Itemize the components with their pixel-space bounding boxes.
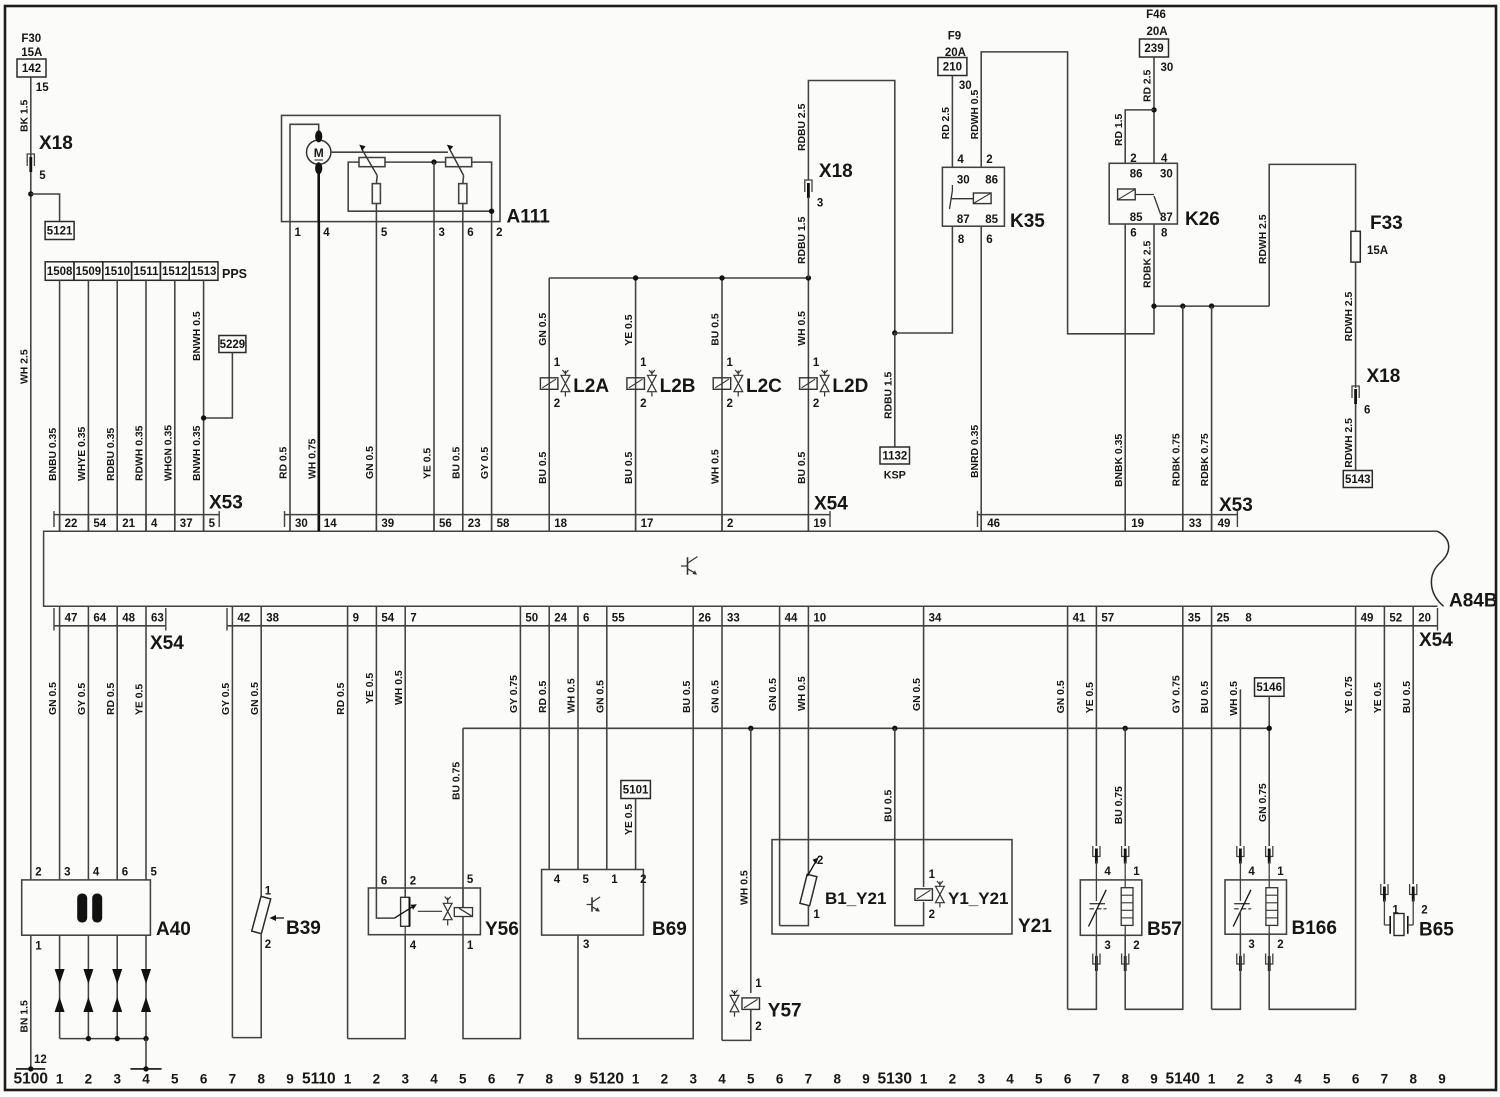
wire RDBK 2.5 K26 pin 8 down — [1153, 224, 1155, 306]
svg-text:41: 41 — [1073, 613, 1086, 625]
svg-text:56: 56 — [439, 518, 452, 530]
svg-text:34: 34 — [929, 613, 942, 625]
ground bar above ruler 4 — [143, 1066, 148, 1071]
component B166 box — [1225, 880, 1287, 934]
injector L2D wire WH 0.5 top / BU 0.5 bottom — [807, 278, 809, 531]
svg-text:GN 0.5: GN 0.5 — [48, 682, 59, 715]
svg-text:7: 7 — [410, 613, 416, 625]
wire B1_Y21 pin 1 U-turn to X54-44 — [780, 905, 809, 926]
svg-text:50: 50 — [525, 613, 538, 625]
wire RDBU 2.5 from junction loop to X18-3 — [808, 81, 894, 334]
wire K35 pin 8 to KSP node — [895, 226, 953, 333]
svg-text:RDWH 0.35: RDWH 0.35 — [135, 425, 146, 481]
svg-text:5120: 5120 — [590, 1071, 624, 1088]
PPS connector boxes 1508-1513 — [45, 262, 74, 281]
svg-text:52: 52 — [1389, 613, 1402, 625]
A111 track connect wire with node to pin 3 — [385, 161, 446, 163]
svg-text:BNWH 0.5: BNWH 0.5 — [192, 311, 203, 361]
svg-text:3: 3 — [113, 1072, 121, 1087]
svg-text:7: 7 — [229, 1072, 237, 1087]
junction on 1513 wire at splice 5229 — [201, 415, 206, 420]
svg-text:X18: X18 — [1367, 366, 1401, 387]
Y56 pin 4 wire to U-turn to X54-9 — [348, 935, 406, 1039]
svg-text:RD 0.5: RD 0.5 — [336, 682, 347, 715]
wire Y57 pin 2 U-turn to X54-33 — [722, 1009, 751, 1040]
svg-text:BU 0.5: BU 0.5 — [682, 680, 693, 713]
wire YE 0.5 splice 5101 to B69 pin 2 — [635, 799, 637, 870]
component A111 box — [282, 115, 501, 221]
fuse F33 symbol — [1351, 231, 1360, 262]
svg-text:5: 5 — [1323, 1072, 1331, 1087]
svg-text:3: 3 — [401, 1072, 409, 1087]
wire RDBK 0.75 to X53-33 — [1182, 306, 1184, 531]
K26 switch contact — [1135, 194, 1154, 196]
injector L2C symbol with pins 1/2 — [713, 378, 731, 390]
svg-text:30: 30 — [1161, 62, 1174, 74]
svg-text:YE 0.5: YE 0.5 — [1085, 682, 1096, 713]
svg-text:B39: B39 — [286, 918, 321, 939]
motor M of A111 — [307, 140, 331, 164]
potentiometer 1 track of A111 — [359, 158, 385, 167]
svg-text:5: 5 — [1035, 1072, 1043, 1087]
svg-text:6: 6 — [1130, 227, 1136, 239]
injector L2C wire BU 0.5 top / WH 0.5 bottom — [721, 278, 723, 531]
svg-text:1: 1 — [1277, 866, 1284, 878]
svg-text:19: 19 — [813, 518, 826, 530]
svg-text:6: 6 — [200, 1072, 208, 1087]
svg-text:BU 0.75: BU 0.75 — [452, 762, 463, 800]
svg-text:WH 0.5: WH 0.5 — [739, 870, 750, 905]
wire GN 0.5 X54-33 down — [721, 626, 723, 1041]
wire RDBK 0.75 to X53-49 — [1211, 306, 1213, 531]
svg-text:BNWH 0.35: BNWH 0.35 — [192, 425, 203, 481]
svg-text:5146: 5146 — [1256, 682, 1282, 694]
svg-text:B1_Y21: B1_Y21 — [825, 889, 886, 908]
svg-text:2: 2 — [640, 874, 646, 886]
svg-text:5100: 5100 — [14, 1071, 48, 1088]
wire GN 0.75 splice 5146 to B166 pin 1 — [1268, 696, 1270, 846]
connector X53 top row line (left group) — [54, 514, 219, 516]
svg-text:GY 0.75: GY 0.75 — [509, 675, 520, 713]
svg-text:6: 6 — [488, 1072, 496, 1087]
svg-text:3: 3 — [689, 1072, 697, 1087]
Y56 pin 1 wire to U-turn to X54-50 — [462, 917, 464, 935]
connector X54 bottom row line (long group) — [227, 625, 1438, 627]
svg-text:30: 30 — [295, 518, 308, 530]
svg-text:F33: F33 — [1370, 213, 1403, 234]
svg-text:39: 39 — [381, 518, 394, 530]
svg-text:1: 1 — [295, 227, 302, 239]
svg-text:F30: F30 — [21, 33, 41, 45]
wire RD 0.5 X54-9 down (return) — [347, 626, 349, 1039]
svg-text:RDWH 2.5: RDWH 2.5 — [1344, 291, 1355, 341]
svg-text:9: 9 — [862, 1072, 870, 1087]
svg-text:Y1_Y21: Y1_Y21 — [948, 889, 1009, 908]
svg-text:3: 3 — [583, 939, 589, 951]
svg-text:WH 0.5: WH 0.5 — [797, 311, 808, 346]
svg-text:X18: X18 — [39, 133, 73, 154]
svg-text:RDBK 0.75: RDBK 0.75 — [1200, 433, 1211, 486]
svg-text:A84B: A84B — [1449, 591, 1498, 612]
svg-text:BN 1.5: BN 1.5 — [19, 1000, 30, 1033]
svg-text:5: 5 — [381, 227, 388, 239]
wire B166 pin 2 U-turn to X54-49 — [1269, 626, 1355, 1010]
svg-text:5229: 5229 — [220, 339, 246, 351]
svg-text:5140: 5140 — [1166, 1071, 1200, 1088]
injector L2B wire YE 0.5 top / BU 0.5 bottom — [635, 278, 637, 531]
solenoid Y1_Y21 symbol pins 1/2 — [915, 889, 933, 901]
svg-text:4: 4 — [1104, 866, 1111, 878]
wire BU 0.75 bus to Y56 pin 5 — [462, 728, 464, 907]
svg-text:26: 26 — [698, 613, 711, 625]
wire GN 0.5 X54-38 to B39 pin 1 — [260, 626, 262, 897]
svg-text:4: 4 — [957, 154, 964, 166]
svg-text:33: 33 — [1189, 518, 1202, 530]
svg-text:GN 0.5: GN 0.5 — [538, 313, 549, 346]
svg-text:57: 57 — [1101, 613, 1114, 625]
svg-text:85: 85 — [1130, 212, 1143, 224]
wire BU 0.75 bus to B57 pin 1 — [1124, 728, 1126, 846]
svg-text:L2C: L2C — [746, 376, 782, 397]
svg-text:10: 10 — [813, 613, 826, 625]
svg-text:X18: X18 — [819, 161, 853, 182]
svg-text:WH 0.5: WH 0.5 — [1229, 681, 1240, 716]
svg-text:9: 9 — [353, 613, 359, 625]
svg-text:5: 5 — [151, 866, 158, 878]
svg-text:BU 0.5: BU 0.5 — [624, 451, 635, 484]
wire BU 0.5 X54-20 to B65 pin 2 — [1412, 626, 1414, 884]
svg-text:WH 2.5: WH 2.5 — [19, 349, 30, 384]
svg-text:YE 0.5: YE 0.5 — [135, 684, 146, 715]
svg-text:BU 0.5: BU 0.5 — [797, 451, 808, 484]
svg-text:63: 63 — [151, 613, 164, 625]
svg-text:6: 6 — [1352, 1072, 1360, 1087]
knock sensor B65 symbol — [1384, 924, 1390, 926]
inline plugs B57 pins 3/2 below — [1093, 954, 1100, 965]
svg-text:3: 3 — [439, 227, 445, 239]
wire RDWH 0.5 K35 pin2 loop over to K26 node — [981, 52, 1154, 334]
svg-text:35: 35 — [1188, 613, 1201, 625]
A111 inner return loop wire — [348, 162, 491, 211]
wire RDWH 2.5 loop up to fuse F33 — [1269, 164, 1355, 306]
svg-text:RDWH 2.5: RDWH 2.5 — [1258, 214, 1269, 264]
svg-text:239: 239 — [1144, 43, 1163, 55]
svg-text:87: 87 — [957, 214, 970, 226]
svg-text:8: 8 — [1121, 1072, 1129, 1087]
connector X18 pin 6 symbol — [1352, 386, 1359, 398]
X53 top pins 46 19 33 49 — [980, 515, 982, 532]
wire WH 0.5 X54-10 to B1_Y21 pin 2 — [807, 626, 809, 875]
svg-text:RD 2.5: RD 2.5 — [1143, 69, 1154, 102]
svg-text:3: 3 — [1248, 939, 1254, 951]
svg-text:12: 12 — [34, 1054, 47, 1066]
svg-text:2: 2 — [1237, 1072, 1245, 1087]
wire RDWH 2.5 fuse F33 to X18-6 — [1355, 262, 1357, 388]
wire K26 pin 6 BNBK 0.35 to X53-19 — [1124, 224, 1126, 531]
svg-text:46: 46 — [987, 518, 1000, 530]
component B69 box — [542, 870, 644, 936]
connector box 239 — [1140, 39, 1169, 57]
svg-text:YE 0.5: YE 0.5 — [365, 673, 376, 704]
svg-text:9: 9 — [574, 1072, 582, 1087]
wire WH 2.5 from X18-5 down to A40 pin 2 — [30, 172, 32, 880]
junction at splice to 5121 — [28, 191, 33, 196]
wire GN 0.5 X54-55 to B69 pin 1 — [606, 626, 608, 870]
svg-text:5143: 5143 — [1345, 474, 1371, 486]
svg-text:47: 47 — [65, 613, 78, 625]
svg-text:8: 8 — [1245, 613, 1252, 625]
X53 top pins 22 54 21 4 37 5 — [59, 515, 61, 532]
wire WH 0.5 bus to Y57 pin 1 — [750, 728, 752, 993]
wire RDWH 2.5 X18-6 to splice 5143 — [1355, 404, 1357, 471]
svg-text:M: M — [314, 146, 324, 160]
svg-text:GY 0.5: GY 0.5 — [77, 683, 88, 715]
svg-text:8: 8 — [545, 1072, 553, 1087]
svg-text:1512: 1512 — [162, 266, 188, 278]
svg-text:1: 1 — [1392, 904, 1399, 916]
B69 internal switch glyph — [591, 897, 593, 911]
svg-text:4: 4 — [93, 866, 100, 878]
svg-text:BNRD 0.35: BNRD 0.35 — [970, 425, 981, 478]
svg-text:GY 0.5: GY 0.5 — [221, 683, 232, 715]
svg-text:5: 5 — [583, 874, 590, 886]
svg-text:1: 1 — [920, 1072, 928, 1087]
svg-text:1: 1 — [35, 941, 42, 953]
A111 internal wire pin1 to motor — [290, 124, 319, 221]
wire RD 1.5 branch to K26 pin 2 — [1125, 110, 1154, 163]
svg-text:GN 0.5: GN 0.5 — [595, 680, 606, 713]
splice box 5146 — [1255, 678, 1285, 697]
svg-text:1: 1 — [1133, 866, 1140, 878]
wire B57 pin 2 U-turn to X54-35 — [1125, 626, 1183, 1010]
svg-text:1: 1 — [265, 885, 272, 897]
svg-text:BU 0.75: BU 0.75 — [1114, 786, 1125, 824]
svg-text:RDBU 1.5: RDBU 1.5 — [797, 216, 808, 264]
solenoid valve Y57 symbol pins 1/2 — [742, 998, 760, 1010]
svg-text:20: 20 — [1418, 613, 1431, 625]
svg-text:14: 14 — [324, 518, 337, 530]
svg-text:RDBU 0.35: RDBU 0.35 — [106, 428, 117, 481]
svg-text:WH 0.5: WH 0.5 — [394, 670, 405, 705]
svg-text:4: 4 — [1248, 866, 1255, 878]
junction bus to B1 supply — [892, 726, 897, 731]
svg-text:2: 2 — [755, 1021, 761, 1033]
X54 bottom pin numbers — [231, 606, 233, 626]
svg-text:2: 2 — [554, 398, 560, 410]
K35 switch contact — [951, 185, 953, 191]
svg-text:2: 2 — [496, 227, 502, 239]
wire BU 0.5 bus into Y21 to Y1_Y21 pin 2 — [895, 728, 924, 925]
svg-text:3: 3 — [817, 198, 823, 210]
svg-text:B166: B166 — [1292, 918, 1337, 939]
svg-text:RDBU 2.5: RDBU 2.5 — [797, 103, 808, 151]
connector X53 top row line (right group) — [978, 514, 1238, 516]
svg-text:Y21: Y21 — [1018, 916, 1052, 937]
svg-text:WH 0.5: WH 0.5 — [797, 676, 808, 711]
svg-text:8: 8 — [958, 234, 965, 246]
svg-text:PPS: PPS — [222, 267, 247, 281]
svg-text:RDBK 0.75: RDBK 0.75 — [1171, 433, 1182, 486]
svg-text:RDWH 2.5: RDWH 2.5 — [1344, 418, 1355, 468]
svg-text:87: 87 — [1160, 212, 1173, 224]
A40 output wires with crash arrows — [59, 935, 61, 1038]
svg-text:30: 30 — [957, 175, 970, 187]
svg-text:A40: A40 — [156, 919, 191, 940]
svg-text:4: 4 — [554, 874, 561, 886]
svg-text:1: 1 — [727, 357, 734, 369]
svg-text:6: 6 — [583, 613, 589, 625]
connector X18 pin 3 symbol (mid) — [805, 180, 812, 192]
svg-text:RD 2.5: RD 2.5 — [941, 107, 952, 140]
svg-text:1: 1 — [755, 978, 762, 990]
svg-text:Y57: Y57 — [768, 1001, 802, 1022]
svg-text:58: 58 — [497, 518, 510, 530]
connector X54 bottom row line (left group) — [54, 625, 166, 627]
wire splice 5229 to 1513 wire — [204, 353, 233, 419]
wire RD 0.5 X54-24 to B69 pin 4 — [548, 626, 550, 870]
svg-text:2: 2 — [265, 939, 271, 951]
wire BU 0.5 X54-25 down (return) — [1211, 626, 1213, 1010]
svg-text:17: 17 — [641, 518, 654, 530]
svg-text:BU 0.5: BU 0.5 — [538, 451, 549, 484]
svg-text:37: 37 — [180, 518, 193, 530]
power rail node wires to X53-33 / X53-49 / F33 — [1154, 305, 1269, 307]
B166 heater resistor symbol — [1266, 888, 1278, 926]
component A40 box — [22, 880, 151, 935]
wire WH 0.5 X54-7 to Y56 pin 2 — [404, 626, 406, 898]
inline plug B166 pin 4 — [1237, 846, 1244, 857]
svg-text:YE 0.5: YE 0.5 — [423, 448, 434, 479]
svg-text:54: 54 — [381, 613, 394, 625]
svg-text:1511: 1511 — [134, 266, 160, 278]
svg-text:2: 2 — [949, 1072, 957, 1087]
svg-text:1: 1 — [554, 357, 561, 369]
wire WH 0.5 X54-6 to B69 pin 5 — [577, 626, 579, 870]
svg-text:5121: 5121 — [47, 226, 73, 238]
svg-text:85: 85 — [985, 214, 998, 226]
svg-text:F9: F9 — [948, 31, 961, 43]
inline plugs B166 pins 3/2 below — [1237, 954, 1244, 965]
svg-text:GN 0.75: GN 0.75 — [1258, 783, 1269, 822]
svg-text:GN 0.5: GN 0.5 — [250, 682, 261, 715]
svg-text:RD 0.5: RD 0.5 — [279, 446, 290, 479]
svg-text:22: 22 — [65, 518, 78, 530]
svg-text:23: 23 — [468, 518, 481, 530]
B57 heater resistor symbol — [1121, 888, 1133, 926]
svg-text:6: 6 — [467, 227, 473, 239]
wires A111 pins to X54: RD 0.5 / WH 0.75 / GN 0.5 / YE 0.5 / BU 0.5 / GY 0.5 — [289, 222, 291, 532]
svg-text:55: 55 — [612, 613, 625, 625]
wire GN 0.5 X54-44 to B1_Y21 return — [779, 626, 781, 926]
svg-text:4: 4 — [142, 1072, 150, 1087]
svg-text:2: 2 — [986, 154, 992, 166]
svg-text:5110: 5110 — [302, 1071, 336, 1088]
svg-text:B57: B57 — [1147, 919, 1182, 940]
svg-text:3: 3 — [1265, 1072, 1273, 1087]
potentiometer 2 series resistor — [462, 176, 465, 184]
svg-text:1132: 1132 — [882, 451, 907, 463]
svg-text:18: 18 — [554, 518, 567, 530]
svg-text:Y56: Y56 — [485, 919, 519, 940]
svg-text:2: 2 — [1421, 904, 1427, 916]
svg-text:X53: X53 — [1219, 495, 1253, 516]
A40 ground collector wire — [60, 1038, 146, 1040]
injector L2A wire GN 0.5 top / BU 0.5 bottom — [548, 278, 550, 531]
svg-text:8: 8 — [257, 1072, 265, 1087]
svg-text:GN 0.5: GN 0.5 — [711, 680, 722, 713]
svg-text:BU 0.5: BU 0.5 — [883, 789, 894, 822]
svg-text:4: 4 — [1006, 1072, 1014, 1087]
Y56 internal position sensor and valve — [376, 888, 394, 918]
svg-text:K26: K26 — [1185, 209, 1220, 230]
wire B166 pin 3 U-turn to X54-25 — [1212, 934, 1241, 1009]
svg-text:X53: X53 — [209, 493, 243, 514]
svg-text:WH 0.75: WH 0.75 — [307, 438, 318, 479]
svg-text:64: 64 — [93, 613, 106, 625]
svg-text:9: 9 — [286, 1072, 294, 1087]
potentiometer 2 wiper arrow — [449, 149, 463, 176]
svg-text:25: 25 — [1217, 613, 1230, 625]
svg-text:1: 1 — [640, 357, 647, 369]
svg-text:RD 1.5: RD 1.5 — [1114, 113, 1125, 146]
svg-text:54: 54 — [93, 518, 106, 530]
svg-text:2: 2 — [1133, 940, 1139, 952]
wire RDBU 1.5 X18-3 to injector bus — [807, 197, 809, 278]
svg-text:1: 1 — [344, 1072, 352, 1087]
connector X54 top row line (middle group) — [285, 514, 831, 516]
svg-text:1: 1 — [467, 940, 474, 952]
B166 pressure sensor symbol — [1239, 880, 1241, 901]
svg-text:4: 4 — [410, 940, 417, 952]
svg-text:BU 0.5: BU 0.5 — [711, 313, 722, 346]
component Y56 box — [368, 888, 480, 935]
svg-text:33: 33 — [727, 613, 740, 625]
svg-text:8: 8 — [1161, 227, 1168, 239]
svg-text:3: 3 — [64, 866, 70, 878]
svg-text:5: 5 — [747, 1072, 755, 1087]
junction RD build — [1151, 107, 1156, 112]
temperature sensor B39 symbol — [252, 896, 271, 933]
svg-text:1: 1 — [1208, 1072, 1216, 1087]
svg-text:7: 7 — [517, 1072, 525, 1087]
svg-text:20A: 20A — [1146, 26, 1167, 38]
svg-text:7: 7 — [1093, 1072, 1101, 1087]
svg-text:2: 2 — [1277, 939, 1283, 951]
svg-text:B69: B69 — [652, 919, 687, 940]
svg-text:24: 24 — [554, 613, 567, 625]
svg-text:44: 44 — [785, 613, 798, 625]
svg-text:GN 0.5: GN 0.5 — [365, 446, 376, 479]
svg-text:86: 86 — [1130, 169, 1143, 181]
wire GN 0.5 X54-34 to Y1_Y21 pin 1 — [923, 626, 925, 887]
svg-text:1: 1 — [813, 909, 820, 921]
svg-text:48: 48 — [122, 613, 135, 625]
injector L2B symbol with pins 1/2 — [627, 378, 645, 390]
svg-text:K35: K35 — [1010, 211, 1045, 232]
splice box 5143 — [1343, 471, 1372, 488]
K35 coil symbol — [973, 193, 991, 204]
svg-text:49: 49 — [1361, 613, 1374, 625]
svg-text:2: 2 — [35, 866, 41, 878]
injector supply bus wire — [549, 277, 808, 279]
svg-text:RD 0.5: RD 0.5 — [106, 682, 117, 715]
svg-text:1510: 1510 — [104, 266, 130, 278]
inline plug B65 pin 2 — [1410, 884, 1417, 895]
wire B57 pin 3 U-turn to X54-41 — [1068, 935, 1097, 1009]
supply bus wire 5V sensors — [463, 727, 1269, 729]
wire WH 0.5 X54-8 to B166 pin 4 (floating top) — [1239, 689, 1241, 846]
splice box 5101 — [621, 781, 651, 799]
